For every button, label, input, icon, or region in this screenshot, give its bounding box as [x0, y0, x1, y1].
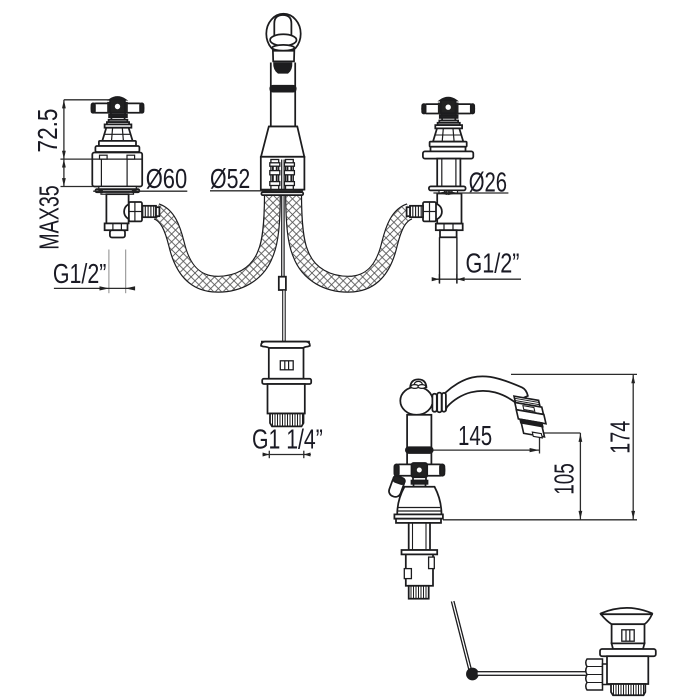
base block [261, 157, 305, 190]
hose left outline [157, 196, 273, 284]
nozzle tip block [521, 423, 544, 437]
hose nut ridges [413, 206, 421, 217]
svg-text:72.5: 72.5 [32, 109, 63, 153]
tick 105 top [544, 432, 580, 434]
dark underside [273, 62, 292, 73]
bottom band notch lines [444, 224, 453, 231]
finial bead right [418, 385, 426, 389]
nut cylinder [603, 664, 612, 685]
bell facet right [122, 128, 123, 141]
aerator nozzle [513, 396, 549, 439]
nozzle body [516, 410, 546, 424]
thread hatch [411, 586, 426, 599]
finial bead left [411, 385, 419, 389]
hub dome [110, 97, 126, 100]
bell [102, 128, 132, 141]
inner window [280, 361, 293, 370]
nut ridges [587, 667, 603, 683]
neck black band [270, 86, 295, 92]
plug cap [601, 608, 652, 614]
supply pipe [440, 237, 457, 283]
drain dim tick right [303, 451, 305, 459]
threaded tail [110, 230, 125, 237]
arrow O52 right [293, 189, 303, 193]
ext line 145 [539, 436, 541, 454]
dimension G1/2 right [432, 248, 521, 283]
stem flare 2 [105, 124, 132, 127]
tick base [443, 519, 637, 521]
bell side [397, 487, 441, 515]
handle bar [92, 103, 144, 112]
stem dark band [412, 481, 428, 484]
lower body [607, 656, 648, 684]
nozzle tip tab [532, 432, 542, 438]
svg-text:G1 1/4”: G1 1/4” [252, 423, 323, 454]
connector left [270, 160, 280, 190]
thread [611, 684, 645, 695]
hub [110, 99, 125, 112]
spout collar rib 3 [442, 393, 446, 412]
spout tube [446, 377, 528, 412]
rod coupler [279, 277, 286, 290]
dim line 174 [632, 374, 634, 519]
arrow up MAX35 [62, 159, 66, 167]
finial inner dome [414, 381, 423, 386]
tick left [438, 274, 440, 283]
window bars [285, 361, 289, 370]
wide flange [423, 151, 473, 158]
bottom band [105, 223, 128, 230]
hose nut ridges [145, 206, 153, 217]
hub side plate right [125, 102, 128, 113]
hose right braid texture [294, 196, 410, 284]
bar cap left [394, 464, 398, 475]
arrow 105 up [579, 434, 583, 442]
outlet nut hline [129, 211, 142, 213]
svg-text:Ø60: Ø60 [146, 163, 188, 194]
stem dark band [109, 115, 127, 118]
svg-text:G1/2”: G1/2” [466, 248, 520, 279]
arrow right-pointing [100, 286, 110, 290]
column inner right [455, 159, 457, 187]
ball joint nut [586, 659, 603, 690]
handle bar side [394, 464, 444, 475]
outlet nut vline [134, 202, 136, 221]
hose left braid texture [157, 196, 273, 284]
svg-text:Ø52: Ø52 [210, 163, 250, 194]
hub side plate left [107, 102, 110, 113]
nozzle collar [514, 396, 540, 407]
flange [600, 649, 656, 656]
arrow 174 up [631, 375, 635, 383]
bar cap right [440, 464, 444, 475]
shank inner lines [413, 523, 427, 550]
svg-text:174: 174 [604, 421, 635, 454]
spout collar rib 2 [437, 393, 441, 413]
drain arrow left [263, 453, 270, 457]
aerator drum [273, 51, 294, 62]
horizontal rod [477, 672, 588, 676]
arrow down MAX35 [62, 178, 66, 186]
hose right outline [294, 196, 410, 284]
spout tube capsule [274, 15, 291, 37]
arrow 105 down [579, 511, 583, 519]
extension line right [125, 250, 127, 294]
stem ring [413, 477, 426, 480]
arrow left-pointing [457, 277, 465, 281]
lever ball [467, 668, 478, 679]
base plate narrow [431, 147, 466, 152]
column [407, 415, 431, 465]
arrow up 72.5 [62, 100, 66, 109]
arrow O60 right [132, 189, 142, 193]
flared cone [261, 127, 304, 157]
arrow 145 right [530, 448, 540, 452]
lever rod diagonal [451, 601, 471, 672]
housing left boss [404, 569, 411, 579]
dimension G1/2 left [53, 250, 135, 294]
tick at body top [60, 158, 91, 160]
base plate [95, 146, 139, 152]
housing right tab [429, 557, 435, 569]
funnel neck [601, 614, 652, 624]
svg-text:105: 105 [549, 463, 580, 495]
extension line left [108, 250, 110, 294]
nozzle ring [515, 402, 544, 414]
threaded tail [440, 230, 457, 237]
outlet nut vline [429, 202, 431, 221]
body [437, 194, 461, 224]
bell facet left [112, 128, 113, 141]
outlet ball [124, 203, 140, 219]
funnel [261, 342, 310, 348]
step [612, 643, 645, 649]
svg-text:145: 145 [458, 420, 492, 451]
base flange [261, 192, 303, 195]
bar end cap left [92, 103, 95, 112]
hub dot [417, 468, 422, 473]
column [437, 159, 460, 187]
hose collar [407, 207, 410, 216]
dimension line O60 [93, 190, 187, 192]
funnel top line [261, 341, 310, 343]
hose nut [143, 206, 157, 217]
arrow O26 right [448, 191, 458, 195]
arrow O60 left [93, 189, 103, 193]
bell line 2 [398, 510, 441, 512]
window bars [626, 630, 630, 641]
O26 disc [429, 186, 466, 190]
dimension line O52 [210, 190, 303, 192]
connector right [284, 160, 294, 190]
arrow down 72.5 [62, 151, 66, 159]
column inner left [441, 159, 443, 187]
outlet ball [426, 203, 442, 219]
lower housing [406, 554, 433, 585]
thread [270, 414, 304, 427]
stem ring2 [414, 484, 426, 487]
aerator ellipse 1 [270, 34, 296, 45]
tick at flange [61, 186, 93, 188]
lower body [106, 194, 128, 223]
thread hatch [614, 684, 644, 695]
aerator ellipse 2 [272, 45, 294, 51]
neck bottom line [269, 126, 298, 128]
O60 flange band3 [101, 192, 134, 194]
arrow 174 down [631, 511, 635, 519]
stem band 2 [109, 120, 128, 122]
tick top of handle [64, 99, 110, 101]
O60 flange band1 [99, 187, 137, 190]
base disc [99, 141, 136, 146]
upper body [269, 348, 304, 379]
shank [409, 523, 430, 550]
hose collar [156, 207, 159, 216]
drain dim line [263, 454, 311, 456]
arrow O52 left [262, 189, 272, 193]
bottom band notch lines [113, 223, 122, 230]
housing thread [409, 586, 429, 599]
flange [262, 379, 311, 384]
upper body [92, 153, 142, 187]
body sleeve line left [100, 159, 102, 186]
drain dim tick left [268, 451, 270, 459]
dim line 145 [433, 449, 540, 451]
mount flange [394, 514, 443, 518]
stem ring 1 [111, 113, 125, 115]
body top band line [92, 158, 142, 160]
body tab right [127, 155, 135, 159]
dimension 72.5 vertical line [63, 100, 65, 159]
dim line 105 [579, 433, 581, 520]
tick right [456, 274, 458, 283]
tab right [452, 190, 458, 193]
hub screw [115, 104, 120, 109]
outlet nut hline [423, 211, 436, 213]
spout collar rib 1 [432, 394, 436, 412]
O60 flange band2 [96, 189, 140, 192]
nozzle dark stripe [520, 419, 543, 426]
lock nut [402, 550, 438, 554]
bottom band [436, 224, 463, 231]
thread hatch [273, 414, 303, 427]
bell mid line [104, 133, 130, 135]
inner window [622, 630, 634, 641]
finial dome [410, 379, 426, 387]
upper body [612, 624, 645, 643]
lower body [268, 384, 305, 414]
popup rod in base [282, 160, 284, 277]
outlet nut [423, 202, 436, 221]
bell line 1 [399, 507, 441, 509]
cross handle (shared geometry) [422, 98, 474, 147]
arrow right-pointing [432, 277, 440, 281]
arrow O26 left [438, 191, 448, 195]
stem flare 1 [107, 122, 129, 124]
drain arrow right [304, 453, 311, 457]
dimension line O26 [433, 192, 508, 194]
body sleeve line right [126, 159, 128, 186]
mount flange 2 [396, 519, 441, 523]
svg-text:MAX35: MAX35 [33, 185, 64, 250]
svg-text:G1/2”: G1/2” [53, 258, 107, 289]
body ball [400, 387, 432, 415]
bar end cap right [140, 103, 143, 112]
tick top 174 [511, 373, 637, 375]
spout outer ring [266, 14, 300, 54]
column black band [406, 447, 433, 453]
stem ring 2 [111, 117, 124, 120]
hub side [412, 463, 428, 477]
dimension MAX35 vertical line [63, 159, 65, 186]
popup knob [387, 475, 405, 498]
dimension line [432, 278, 521, 280]
neck [271, 63, 295, 127]
arrow left-pointing [125, 286, 135, 290]
dimension line G1/2 [54, 287, 134, 289]
hose nut [410, 206, 423, 217]
outlet nut [129, 202, 142, 221]
thin rod [283, 290, 286, 341]
tab left [439, 190, 445, 193]
body tab left [100, 155, 108, 159]
